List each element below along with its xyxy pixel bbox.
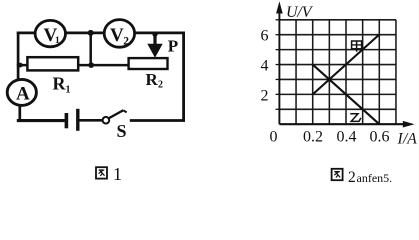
svg-text:2: 2	[123, 36, 129, 48]
svg-text:4: 4	[261, 58, 269, 75]
wire resistor row	[17, 64, 130, 67]
svg-text:0.4: 0.4	[337, 129, 357, 146]
axis Y tick marks	[276, 20, 280, 109]
curve yi (falling line)	[313, 65, 380, 125]
y tick label 4	[261, 58, 269, 75]
battery positive plate	[76, 109, 79, 131]
curve jia (rising line of resistor)	[313, 35, 380, 95]
y tick label 6	[261, 28, 269, 45]
battery negative plate	[65, 113, 69, 128]
wire bottom right	[130, 119, 185, 122]
x tick label 0.2	[303, 129, 323, 146]
svg-text:2: 2	[348, 169, 356, 182]
voltmeter V2	[104, 20, 134, 48]
svg-text:2: 2	[261, 87, 269, 104]
axis Y (U axis) with arrow	[276, 1, 283, 124]
svg-text:/A: /A	[402, 131, 417, 148]
x tick label 0.6	[370, 129, 390, 146]
svg-text:0.6: 0.6	[370, 129, 390, 146]
x tick label 0	[270, 129, 278, 146]
resistor R2 (rheostat body)	[129, 58, 168, 69]
y tick label 2	[261, 87, 269, 104]
svg-text:6: 6	[261, 28, 269, 45]
label jia (Chinese char drawn)	[352, 41, 362, 52]
x tick label 0.4	[337, 129, 357, 146]
label R1	[53, 74, 71, 96]
voltmeter V1	[35, 20, 65, 46]
switch S pivot	[103, 117, 110, 124]
resistor R1	[27, 57, 78, 70]
svg-text:1: 1	[66, 85, 71, 96]
axis X (I axis) with arrow	[279, 121, 414, 128]
wire battery to switch	[79, 119, 103, 122]
label yi (Chinese char drawn)	[349, 112, 361, 122]
svg-text:0: 0	[270, 129, 278, 146]
wire junction vertical (top node to R1-R2 node)	[89, 33, 92, 65]
svg-text:S: S	[117, 121, 127, 141]
grid horizontal lines	[279, 20, 396, 109]
svg-text:anfen5.: anfen5.	[357, 171, 393, 182]
svg-text:V: V	[110, 25, 124, 46]
wire top (node between meters)	[17, 32, 185, 35]
rheostat slider arrow P	[147, 32, 162, 58]
wire left vertical (top corner to ammeter)	[17, 32, 20, 81]
svg-text:0.2: 0.2	[303, 129, 323, 146]
node junction top (between V1 and V2)	[88, 30, 94, 36]
label P	[168, 37, 178, 56]
svg-text:R: R	[146, 70, 159, 89]
wire bottom left	[17, 119, 65, 122]
node junction R1-R2	[88, 62, 94, 68]
axis label U/V	[286, 4, 314, 21]
axis label I/A	[397, 131, 418, 148]
svg-text:2: 2	[158, 80, 163, 91]
svg-text:1: 1	[55, 36, 60, 46]
svg-text:/V: /V	[296, 4, 313, 21]
wire left vertical (ammeter to bottom)	[18, 105, 21, 122]
ammeter A	[7, 79, 36, 105]
label figure1 (Chinese char drawn as strokes)	[96, 164, 122, 184]
label R2	[146, 70, 164, 91]
svg-text:A: A	[16, 83, 30, 104]
label figure2 (Chinese char drawn as strokes)	[332, 169, 356, 186]
node junction left row	[18, 63, 23, 68]
grid vertical lines	[296, 20, 396, 124]
svg-text:P: P	[168, 37, 178, 56]
svg-text:1: 1	[113, 164, 122, 182]
wire right vertical	[182, 32, 185, 122]
switch S lever	[109, 110, 127, 118]
watermark	[357, 171, 393, 185]
label S	[117, 121, 127, 141]
svg-text:R: R	[53, 74, 67, 94]
